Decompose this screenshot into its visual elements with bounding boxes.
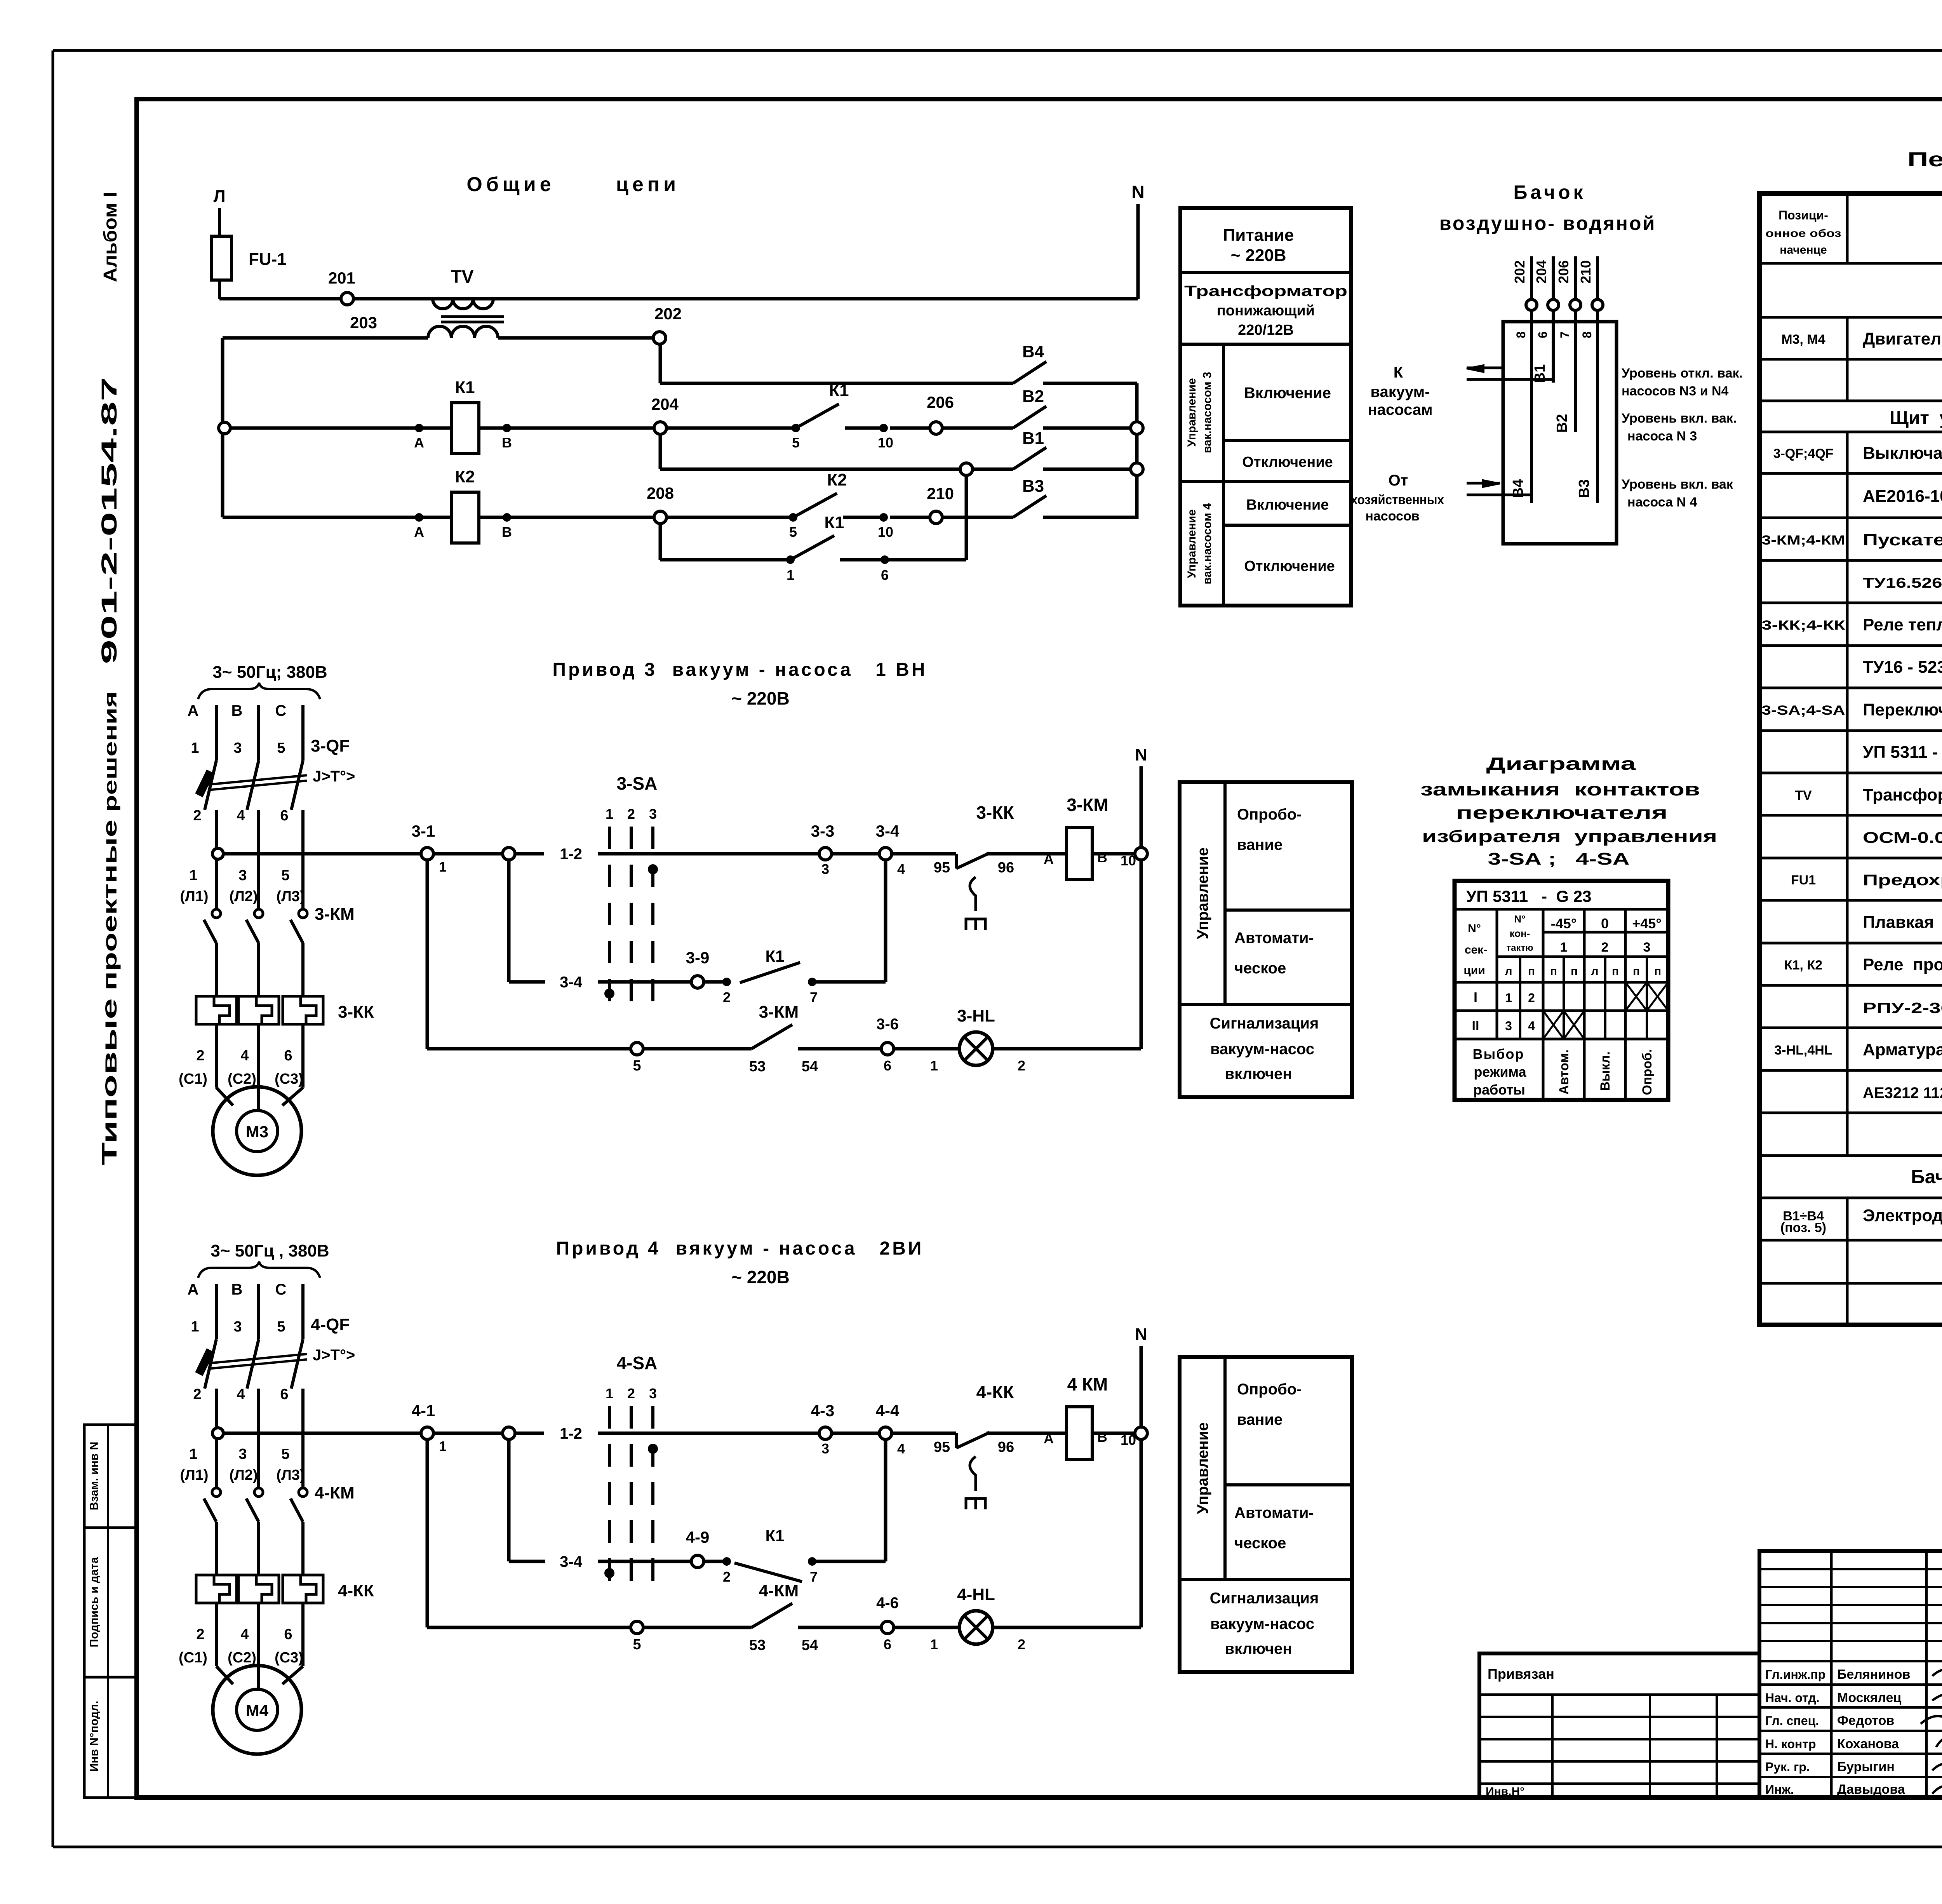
node 3-4 [832, 822, 905, 877]
svg-text:1: 1 [189, 867, 197, 884]
svg-text:3-НL: 3-НL [957, 1006, 995, 1025]
svg-text:АЕ2016-10НУ3; Jр=8А ТУ16.522.0: АЕ2016-10НУ3; Jр=8А ТУ16.522.064-82 [1863, 487, 1942, 506]
svg-text:4-1: 4-1 [412, 1401, 435, 1420]
element row HL armature [1774, 1040, 1942, 1059]
wire B4 row [660, 382, 1013, 385]
tank title [1439, 181, 1656, 234]
svg-text:5: 5 [277, 740, 285, 756]
svg-text:А: А [414, 524, 424, 540]
wire 204 down to B1 row [659, 434, 662, 469]
svg-text:Сигнализация: Сигнализация [1210, 1590, 1319, 1607]
svg-text:J>Т°>: J>Т°> [313, 1347, 355, 1364]
svg-text:3-4: 3-4 [876, 822, 900, 840]
svg-text:п: п [1571, 965, 1578, 978]
svg-text:210: 210 [1578, 260, 1594, 284]
svg-text:С: С [275, 702, 287, 719]
svg-text:хозяйственных: хозяйственных [1351, 493, 1444, 507]
svg-text:96: 96 [998, 860, 1014, 876]
svg-text:3: 3 [233, 1319, 242, 1335]
svg-text:насоса N 3: насоса N 3 [1627, 429, 1697, 444]
info label otklyuchenie 1 [1242, 454, 1333, 470]
element list title [1907, 148, 1942, 171]
contact B2 level switch [1013, 387, 1131, 428]
wire 208 to K2 contact [666, 513, 797, 540]
svg-text:3-КМ: 3-КМ [315, 905, 355, 924]
svg-text:Коханова: Коханова [1837, 1737, 1899, 1751]
element table grid [1759, 193, 1942, 1325]
privod 4 supply label [198, 1241, 329, 1278]
svg-text:5: 5 [792, 435, 800, 451]
diagram row vybor [1473, 1046, 1655, 1098]
relay coil K1 [451, 378, 479, 454]
svg-text:В: В [1097, 1429, 1107, 1445]
node 3 N terminal [1135, 745, 1147, 848]
title block privyazan table [1479, 1653, 1759, 1798]
svg-text:3-4: 3-4 [560, 1553, 583, 1570]
privod 4 terminal labels L1L2L3 [180, 1467, 305, 1483]
svg-text:вак.насосом 3: вак.насосом 3 [1201, 372, 1214, 453]
svg-text:Инв N°подл.: Инв N°подл. [88, 1701, 101, 1772]
svg-text:8: 8 [1514, 331, 1528, 338]
privod 4 terminal labels 246 up [193, 1386, 288, 1403]
tank pipe to vacuum pumps [1467, 365, 1554, 379]
svg-text:6: 6 [1536, 331, 1550, 338]
svg-text:Привязан: Привязан [1488, 1666, 1554, 1682]
wire 3 branch down [509, 860, 545, 982]
wire B1 row [660, 468, 960, 471]
svg-text:~ 220В: ~ 220В [731, 1267, 790, 1287]
svg-text:(Л2): (Л2) [229, 888, 258, 905]
selector switch 3-SA [604, 773, 658, 1007]
svg-text:202: 202 [1512, 260, 1528, 284]
mode box 1 signalizaciya [1210, 1015, 1319, 1083]
svg-text:л: л [1591, 965, 1598, 978]
svg-text:Бачок воздушно - водяной: Бачок воздушно - водяной [1911, 1167, 1942, 1187]
svg-text:Взам. инв N: Взам. инв N [88, 1442, 101, 1511]
svg-text:4: 4 [897, 861, 905, 877]
wire 4 lamp to N bus [1140, 1439, 1143, 1627]
svg-text:А: А [188, 1281, 199, 1298]
svg-text:(Л1): (Л1) [180, 888, 208, 905]
svg-text:(Л3): (Л3) [276, 888, 305, 905]
svg-text:Реле тепловое РТЛ101004,: Реле тепловое РТЛ101004, 6А [1863, 615, 1942, 634]
svg-text:3: 3 [1643, 940, 1651, 955]
element row SA type [1863, 743, 1942, 762]
privod 3 terminal labels 135 low [189, 867, 289, 884]
svg-text:Москялец: Москялец [1837, 1690, 1901, 1705]
svg-text:53: 53 [749, 1058, 766, 1075]
element row TV transformer [1795, 785, 1942, 804]
svg-text:1: 1 [606, 806, 613, 822]
thermal contact 3-KK 95-96 [892, 802, 1047, 930]
svg-text:3-HL,4HL: 3-HL,4HL [1774, 1043, 1832, 1058]
svg-text:6: 6 [284, 1626, 292, 1643]
svg-text:206: 206 [1556, 260, 1571, 284]
wire 203 secondary line [223, 313, 428, 338]
svg-text:201: 201 [328, 269, 355, 287]
svg-text:Гл. спец.: Гл. спец. [1765, 1714, 1819, 1728]
svg-text:Нач. отд.: Нач. отд. [1765, 1691, 1820, 1705]
attribute box podpis i data [84, 1528, 137, 1677]
svg-text:ОСМ-0.063У3,U~220/12В, 63ВА ГО: ОСМ-0.063У3,U~220/12В, 63ВА ГОСТ16710-76 [1863, 829, 1942, 846]
svg-text:тактю: тактю [1506, 943, 1533, 953]
svg-text:вакуум-насос: вакуум-насос [1210, 1615, 1314, 1632]
svg-text:3-SА;4-SА: 3-SА;4-SА [1762, 703, 1845, 718]
svg-text:1: 1 [930, 1058, 938, 1074]
svg-text:54: 54 [802, 1637, 818, 1653]
svg-text:4: 4 [237, 808, 245, 824]
wire 3 lamp to N bus [1140, 860, 1143, 1049]
node 3-9 [686, 949, 710, 988]
svg-text:4: 4 [237, 1386, 245, 1403]
svg-text:7: 7 [1558, 331, 1572, 338]
svg-text:Включение: Включение [1246, 497, 1329, 513]
svg-text:3-9: 3-9 [686, 949, 710, 967]
svg-text:5: 5 [789, 524, 797, 540]
svg-text:включен: включен [1225, 1065, 1292, 1083]
element row HL type [1863, 1083, 1942, 1102]
svg-text:С: С [275, 1281, 287, 1298]
diagram table head kontaktov [1506, 913, 1533, 953]
contact B3 level switch [1013, 477, 1137, 517]
svg-text:8: 8 [1580, 331, 1594, 338]
svg-text:4-КК: 4-КК [976, 1382, 1014, 1402]
wire 4 control feed [212, 1428, 421, 1439]
info label transformer [1184, 283, 1347, 338]
svg-text:2: 2 [723, 1569, 731, 1585]
privod 3 title [553, 660, 927, 708]
element row KK relay [1762, 615, 1942, 634]
svg-text:-45°: -45° [1551, 915, 1577, 931]
svg-text:Трансформатор: Трансформатор [1184, 283, 1347, 299]
svg-text:цепи: цепи [616, 173, 680, 196]
svg-text:2: 2 [1018, 1058, 1025, 1074]
svg-text:Перечень элементов: Перечень элементов [1907, 148, 1942, 171]
svg-text:3: 3 [821, 861, 829, 877]
svg-text:2: 2 [627, 806, 635, 822]
svg-text:Автомати-: Автомати- [1234, 1504, 1314, 1521]
svg-text:вание: вание [1237, 836, 1282, 853]
svg-text:К1: К1 [766, 947, 785, 965]
svg-text:N: N [1135, 745, 1147, 764]
contactor coil 4 КМ [1044, 1374, 1136, 1459]
svg-text:4-НL: 4-НL [957, 1585, 995, 1604]
privod 3 terminal labels 246 up [193, 808, 288, 824]
svg-text:4: 4 [240, 1048, 249, 1064]
svg-text:работы: работы [1473, 1082, 1525, 1098]
svg-text:1: 1 [439, 859, 447, 875]
node 4-9 [686, 1528, 710, 1568]
svg-text:(С2): (С2) [228, 1650, 256, 1666]
svg-text:4-КК: 4-КК [338, 1581, 374, 1600]
wire node202 down to B4 row [659, 344, 662, 383]
svg-text:1: 1 [1560, 940, 1568, 955]
svg-text:избирателя управления: избирателя управления [1422, 827, 1717, 846]
svg-text:воздушно- водяной: воздушно- водяной [1439, 212, 1656, 234]
element row electrode pos [1780, 1220, 1826, 1235]
wire 4 main to branch [433, 1432, 503, 1435]
svg-text:Арматура светосигнальная: Арматура светосигнальная [1863, 1040, 1942, 1059]
svg-text:включен: включен [1225, 1640, 1292, 1657]
node 206 [890, 393, 1013, 434]
svg-text:Л: Л [214, 187, 226, 206]
svg-text:вакуум-насос: вакуум-насос [1210, 1041, 1314, 1058]
tank note level off [1622, 366, 1743, 399]
contactor 3-KM main contacts [204, 897, 355, 996]
element row motor M3 M4 [1781, 321, 1942, 355]
svg-text:202: 202 [654, 305, 682, 323]
svg-text:К1: К1 [766, 1526, 785, 1545]
svg-text:п: п [1633, 965, 1640, 978]
svg-text:3: 3 [821, 1441, 829, 1457]
svg-text:Типовые: Типовые [98, 998, 121, 1165]
svg-text:От: От [1389, 472, 1408, 489]
element row QF breaker [1773, 444, 1942, 463]
svg-text:(Л1): (Л1) [180, 1467, 208, 1483]
node left end K1 row [219, 422, 230, 434]
svg-text:Опроб.: Опроб. [1640, 1049, 1655, 1095]
svg-text:3-КК;4-КК: 3-КК;4-КК [1762, 618, 1845, 633]
element row K1 type [1863, 998, 1942, 1016]
svg-text:0: 0 [1601, 915, 1609, 931]
svg-text:6: 6 [884, 1058, 891, 1074]
svg-text:3: 3 [233, 740, 242, 756]
svg-text:Автом.: Автом. [1557, 1049, 1571, 1095]
svg-text:~ 220В: ~ 220В [1230, 246, 1286, 265]
svg-text:насосам: насосам [1368, 401, 1432, 418]
info rotated upravlenie nasos3 [1185, 372, 1214, 453]
wire bypass to B1 junction [885, 475, 966, 560]
element row KM type [1863, 573, 1942, 591]
svg-text:204: 204 [651, 395, 679, 413]
svg-text:вание: вание [1237, 1411, 1282, 1428]
svg-text:(С3): (С3) [275, 1071, 303, 1087]
svg-text:Электродный датчик: Электродный датчик [1863, 1206, 1942, 1225]
svg-text:п: п [1550, 965, 1557, 978]
svg-text:В3: В3 [1576, 479, 1592, 498]
mode box 2 grid [1180, 1357, 1352, 1672]
contact K1 NO [796, 381, 893, 451]
svg-text:4: 4 [240, 1626, 249, 1643]
node right bus top [1131, 422, 1143, 434]
title block privyazan label [1488, 1666, 1554, 1682]
svg-text:А: А [188, 702, 199, 719]
title block signature names [1765, 1667, 1910, 1797]
svg-text:К1: К1 [829, 381, 849, 400]
diagram table head sekcii [1463, 922, 1487, 977]
mode box 1 rotated upravlenie [1194, 848, 1211, 939]
svg-text:ческое: ческое [1234, 960, 1286, 977]
svg-text:TV: TV [451, 266, 474, 287]
svg-text:К2: К2 [455, 467, 475, 486]
svg-text:Диаграмма: Диаграмма [1486, 754, 1636, 774]
svg-text:208: 208 [647, 484, 674, 502]
svg-text:1-2: 1-2 [560, 846, 582, 863]
title block signature squiggles [1921, 1667, 1942, 1794]
svg-text:Рук. гр.: Рук. гр. [1765, 1760, 1810, 1774]
diagram table head positions [1560, 940, 1651, 955]
diagram row I [1474, 982, 1668, 1011]
svg-text:Привод 3 вакуум - насоса 1: Привод 3 вакуум - насоса 1 ВН [553, 660, 927, 680]
svg-text:АЕ3212 112У2,U~220В ТУ16.535.: АЕ3212 112У2,U~220В ТУ16.535.582-76 [1863, 1084, 1942, 1102]
svg-text:вакуум-: вакуум- [1370, 383, 1430, 400]
node 3 lamp row 5 [631, 1043, 752, 1074]
element row FU1 fuse [1791, 872, 1942, 889]
node L phase terminal [214, 187, 226, 236]
transformer TV [428, 266, 504, 338]
title block signatures grid [1759, 1551, 1942, 1798]
svg-text:10: 10 [878, 435, 893, 451]
thermal relay 4-KK heaters [196, 1575, 374, 1662]
tank note level on N4 [1622, 477, 1733, 510]
svg-text:3-3: 3-3 [811, 822, 835, 840]
contact 4-КМ auxiliary [749, 1581, 881, 1653]
margin caption proektnye [99, 820, 121, 990]
wire K2 coil row [223, 513, 654, 540]
circuit breaker 3-QF [196, 736, 355, 897]
thermal relay 3-KK heaters [196, 996, 374, 1084]
svg-text:5: 5 [281, 1446, 289, 1462]
svg-text:1: 1 [606, 1385, 613, 1401]
svg-text:Управление: Управление [1194, 848, 1211, 939]
svg-text:В: В [231, 1281, 243, 1298]
svg-text:Выкл.: Выкл. [1598, 1051, 1613, 1091]
relay coil K2 [451, 467, 479, 543]
svg-text:В2: В2 [1554, 414, 1570, 433]
svg-text:насоса N 4: насоса N 4 [1627, 495, 1697, 510]
wire 4 branch down [509, 1439, 545, 1561]
element row fuse link [1863, 913, 1942, 932]
svg-text:решения: решения [100, 691, 120, 812]
wire 4 row 3-4 right [812, 1439, 886, 1561]
svg-text:1: 1 [787, 567, 794, 583]
contact K2 NO [793, 470, 893, 540]
svg-text:3~ 50Гц; 380В: 3~ 50Гц; 380В [212, 663, 327, 682]
svg-text:В3: В3 [1022, 477, 1044, 496]
svg-text:Федотов: Федотов [1837, 1713, 1894, 1728]
node 4 N terminal [1135, 1325, 1147, 1427]
svg-text:54: 54 [802, 1058, 818, 1075]
margin caption tipovye [98, 998, 121, 1165]
svg-text:3-QF;4QF: 3-QF;4QF [1773, 446, 1834, 461]
svg-text:3-КК: 3-КК [338, 1002, 374, 1022]
svg-text:4 КМ: 4 КМ [1067, 1374, 1108, 1394]
svg-text:М3: М3 [246, 1123, 268, 1141]
svg-text:J>Т°>: J>Т°> [313, 768, 355, 785]
svg-text:Альбом I: Альбом I [100, 192, 121, 282]
tank pipe from household pumps [1467, 480, 1531, 495]
margin caption Albom I [100, 192, 121, 282]
privod 3 terminal labels L1L2L3 [180, 888, 305, 905]
margin caption doc number [97, 377, 121, 664]
svg-text:1: 1 [191, 1319, 199, 1335]
svg-text:1: 1 [189, 1446, 197, 1462]
svg-text:ТV: ТV [1795, 788, 1812, 803]
svg-text:7: 7 [810, 1569, 818, 1585]
mode box 1 grid [1180, 782, 1352, 1097]
svg-text:3-КМ: 3-КМ [759, 1002, 799, 1022]
svg-text:насосов N3 и N4: насосов N3 и N4 [1622, 384, 1729, 399]
svg-text:(С1): (С1) [179, 1071, 207, 1087]
svg-text:В4: В4 [1022, 342, 1044, 361]
element row QF type [1863, 487, 1942, 506]
svg-text:4: 4 [897, 1441, 905, 1457]
svg-text:(С1): (С1) [179, 1650, 207, 1666]
svg-text:М4: М4 [246, 1701, 269, 1720]
svg-text:Сигнализация: Сигнализация [1210, 1015, 1319, 1032]
privod 3 supply label [198, 663, 327, 699]
svg-text:4-QF: 4-QF [311, 1315, 350, 1334]
svg-text:Включение: Включение [1244, 385, 1331, 402]
svg-text:4-6: 4-6 [876, 1594, 899, 1612]
svg-text:4-КМ: 4-КМ [759, 1581, 799, 1600]
svg-text:Питание: Питание [1223, 226, 1294, 245]
svg-text:В: В [502, 435, 512, 451]
wire 3 lamp row left [427, 860, 631, 1049]
svg-text:N°: N° [1468, 922, 1481, 935]
svg-text:FU1: FU1 [1791, 873, 1816, 888]
wire 4 lamp row left [427, 1439, 631, 1627]
diagram title [1420, 754, 1717, 868]
contact 3-КМ auxiliary [749, 1002, 881, 1075]
svg-text:(С3): (С3) [275, 1650, 303, 1666]
info rotated upravlenie nasos4 [1185, 503, 1214, 585]
privod 4 title [556, 1238, 924, 1287]
svg-text:К2: К2 [827, 470, 847, 489]
svg-text:Бурыгин: Бурыгин [1837, 1760, 1895, 1774]
svg-text:Трансформатор понижающий: Трансформатор понижающий [1863, 785, 1942, 804]
svg-text:К1, К2: К1, К2 [1784, 958, 1822, 973]
node 4-1 [412, 1401, 447, 1454]
svg-text:Уровень откл. вак.: Уровень откл. вак. [1622, 366, 1743, 381]
svg-text:6: 6 [881, 567, 889, 583]
diagram row II [1472, 1011, 1584, 1039]
node 4-6 [876, 1594, 899, 1652]
svg-text:4-SА: 4-SА [617, 1353, 658, 1373]
privod 4 terminal labels 135 top [191, 1319, 285, 1335]
svg-text:1: 1 [1505, 991, 1512, 1005]
svg-text:N: N [1135, 1325, 1147, 1344]
svg-text:Инв.Н°: Инв.Н° [1486, 1785, 1524, 1798]
svg-text:режима: режима [1474, 1064, 1526, 1080]
svg-text:замыкания контактов: замыкания контактов [1420, 779, 1700, 799]
signal lamp 4-НL [894, 1585, 1141, 1652]
privod 4 phase terminals ABC [188, 1281, 303, 1339]
circuit breaker 4-QF [196, 1315, 355, 1476]
wire 3 row 3-4 right [812, 860, 886, 982]
svg-text:6: 6 [280, 808, 288, 824]
svg-text:Переключятель универсальный: Переключятель универсальный [1863, 700, 1942, 719]
node 4 branch [503, 1427, 515, 1439]
svg-text:Опробо-: Опробо- [1237, 1381, 1302, 1398]
svg-text:Отключение: Отключение [1242, 454, 1333, 470]
wire K1 bypass row [660, 555, 795, 583]
svg-text:В: В [1097, 849, 1107, 865]
svg-text:4-4: 4-4 [876, 1401, 900, 1420]
svg-text:М3, М4: М3, М4 [1781, 332, 1825, 347]
element row SA switch [1762, 700, 1942, 719]
contactor coil 3-КМ [1044, 795, 1136, 880]
svg-text:Общие: Общие [466, 173, 555, 196]
contact B4 level switch [1013, 342, 1137, 383]
svg-text:3-6: 3-6 [876, 1016, 899, 1033]
svg-text:Позици-: Позици- [1778, 208, 1828, 222]
svg-text:Пускатель магнитный ПМЛ110004Б: Пускатель магнитный ПМЛ110004Б,U~220В [1863, 531, 1942, 549]
svg-text:Щит управления ШЩ. Шкаф 2: Щит управления ШЩ. Шкаф 2 [1890, 408, 1942, 428]
contact K1 NO bypass [790, 513, 889, 583]
wire right bus vertical [1135, 383, 1139, 519]
svg-text:3-QF: 3-QF [311, 736, 350, 755]
